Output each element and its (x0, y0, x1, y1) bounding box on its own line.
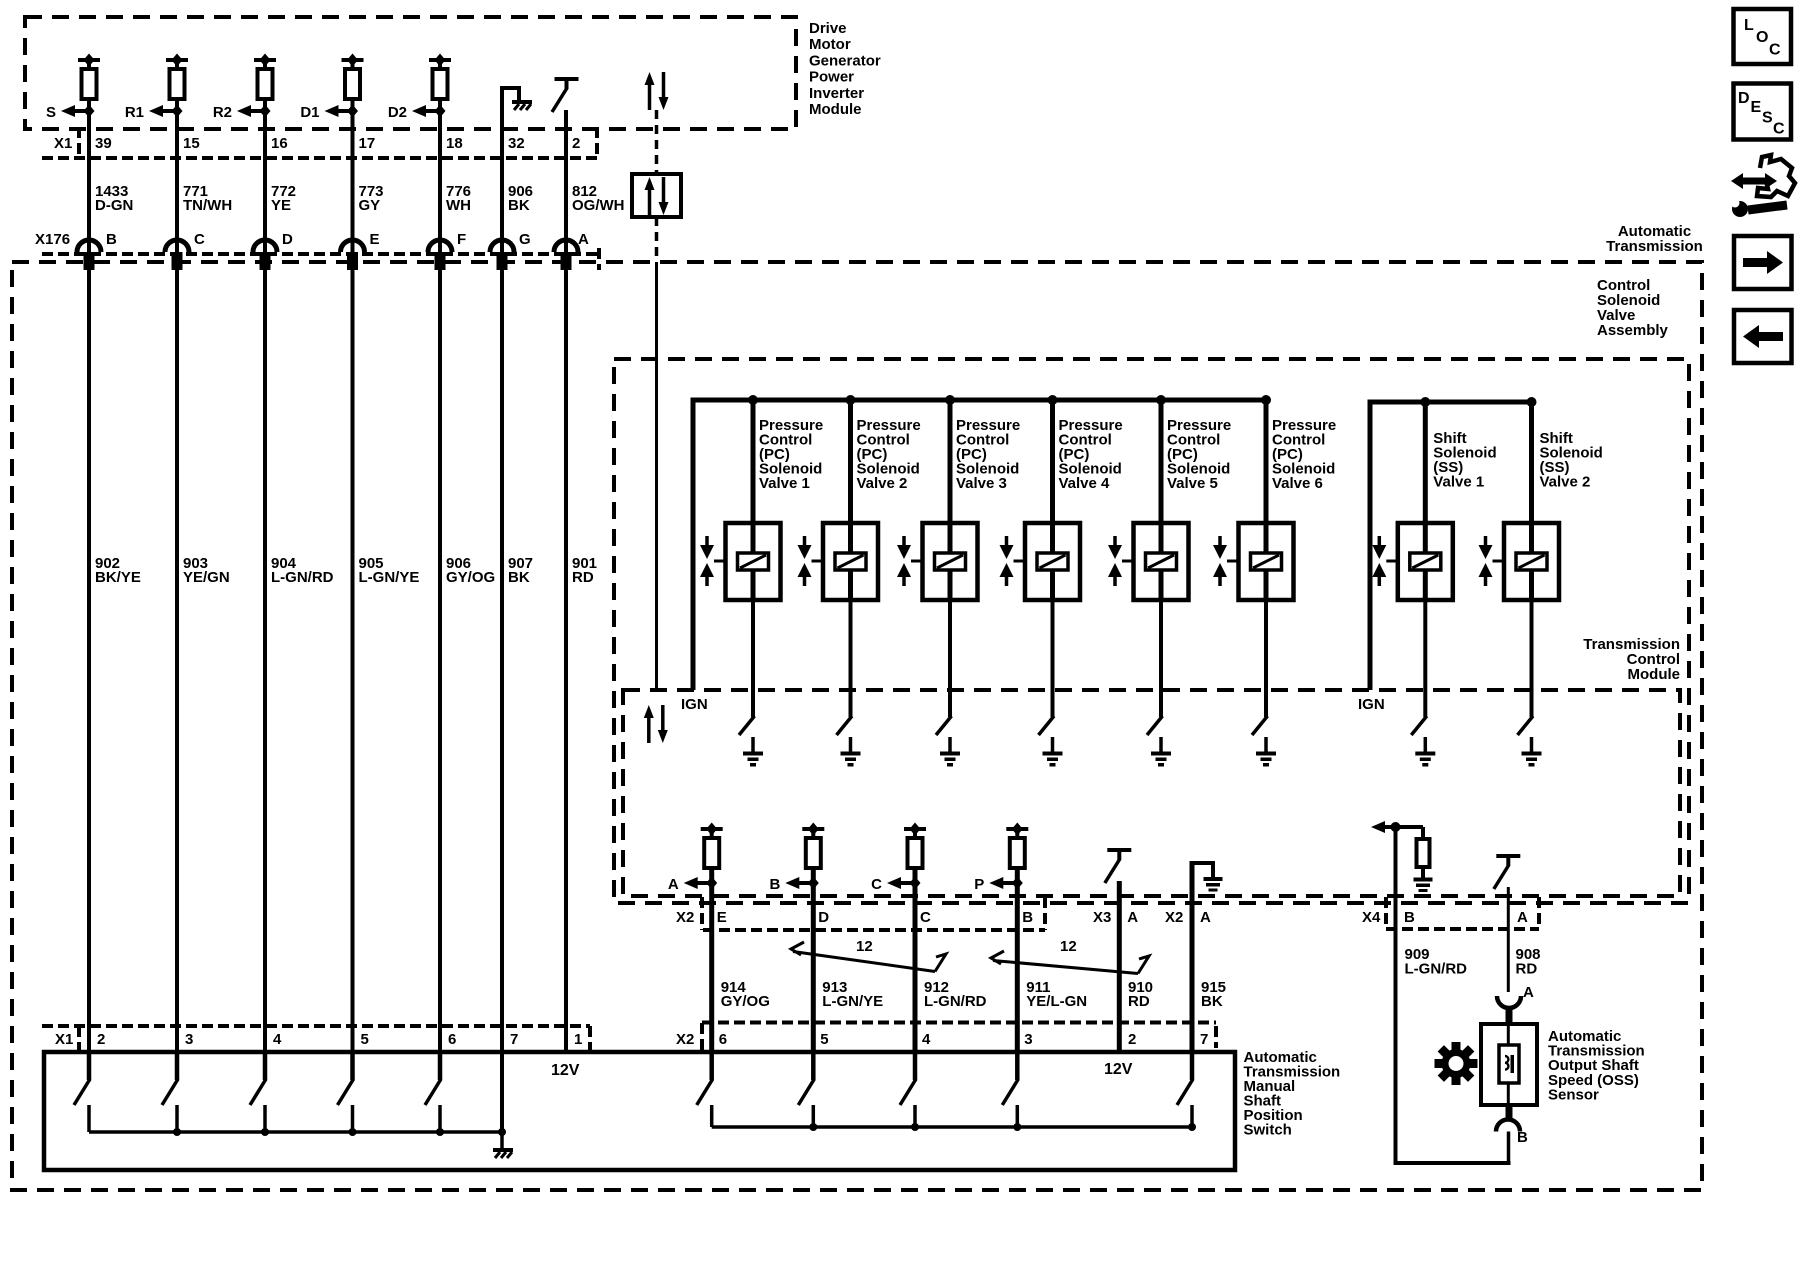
svg-text:Drive: Drive (809, 20, 847, 37)
svg-text:L: L (1744, 17, 1754, 34)
serial data dashed wire upper (655, 110, 659, 174)
svg-text:S: S (1762, 110, 1773, 127)
wire below PC valve 1 (751, 600, 755, 717)
wire PC solenoid valve 6 (1264, 400, 1269, 523)
svg-text:X3: X3 (1093, 909, 1111, 926)
wire 908 RD (1507, 887, 1510, 992)
svg-text:GY: GY (359, 197, 381, 214)
fuse element D1 in inverter module (342, 58, 364, 62)
svg-text:A: A (578, 231, 589, 248)
switch contact X3-A in TCM (1107, 848, 1131, 852)
connector X176 pin G (490, 240, 514, 252)
svg-text:IGN: IGN (1358, 696, 1385, 713)
svg-text:5: 5 (361, 1031, 369, 1048)
svg-text:L-GN/YE: L-GN/YE (822, 993, 883, 1010)
wire 914 GY/OG (709, 870, 714, 1054)
fuse element R1 in inverter module (166, 58, 188, 62)
pressure control solenoid valve 4 (1025, 523, 1080, 600)
pressure control solenoid valve 5 (1134, 523, 1189, 600)
wire 1433 D-GN upper segment (87, 99, 91, 253)
svg-text:C: C (1773, 121, 1785, 138)
junction node on IGN bus for PC valve 3 (945, 395, 955, 405)
TCM driver switch for PC valve 4 (1039, 716, 1055, 735)
TCM driver switch for SS valve 1 (1411, 716, 1427, 735)
wire below PC valve 5 (1159, 600, 1163, 717)
wire below SS valve 1 (1423, 600, 1427, 717)
svg-text:B: B (1517, 1129, 1528, 1146)
svg-text:Valve 4: Valve 4 (1059, 475, 1111, 492)
svg-text:P: P (974, 876, 984, 893)
svg-text:32: 32 (508, 135, 525, 152)
svg-text:B: B (1404, 909, 1415, 926)
svg-text:6: 6 (719, 1031, 727, 1048)
serial data wire inside transmission (655, 262, 658, 690)
wire 913 L-GN/YE (811, 870, 816, 1054)
svg-text:4: 4 (273, 1031, 282, 1048)
module box: Control Solenoid Valve Assembly (614, 359, 1689, 903)
svg-text:A: A (1200, 909, 1211, 926)
icon next arrow box (1734, 236, 1792, 289)
svg-text:Valve 2: Valve 2 (857, 475, 908, 492)
svg-text:RD: RD (1516, 961, 1538, 978)
svg-text:A: A (1523, 984, 1534, 1001)
icon full size view with wrench (1728, 155, 1795, 217)
svg-text:TN/WH: TN/WH (183, 197, 232, 214)
wire 912 L-GN/RD (913, 870, 918, 1054)
position switch contact at x=89 (87, 1052, 92, 1080)
svg-text:X1: X1 (55, 1031, 73, 1048)
wire 907 BK to position switch (500, 270, 504, 1054)
gear icon of OSS sensor (1435, 1042, 1478, 1085)
wire 904 L-GN/RD to position switch (263, 270, 267, 1054)
fuse element D2 in inverter module (429, 58, 451, 62)
module box: Automatic Transmission (12, 262, 1702, 1190)
svg-text:C: C (194, 231, 205, 248)
junction node on IGN bus for PC valve 5 (1156, 395, 1166, 405)
svg-text:Module: Module (1628, 666, 1681, 683)
svg-text:Valve 1: Valve 1 (759, 475, 810, 492)
pressure control solenoid valve 1 (726, 523, 781, 600)
svg-text:D1: D1 (300, 104, 319, 121)
svg-text:F: F (457, 231, 466, 248)
svg-text:16: 16 (271, 135, 288, 152)
svg-text:GY/OG: GY/OG (446, 569, 495, 586)
ground return 915 BK in TCM (1192, 863, 1213, 877)
position switch contact pin 7 (1190, 1052, 1195, 1080)
TCM driver switch for PC valve 3 (936, 716, 952, 735)
junction node on switch bus right (1188, 1123, 1196, 1131)
switch contact X4-A in TCM (1496, 854, 1520, 858)
wire bottom run to sensor (1394, 1161, 1511, 1165)
svg-text:12: 12 (1060, 938, 1077, 955)
junction node on switch bus right (809, 1123, 817, 1131)
arrow terminal R1 (162, 109, 177, 113)
connector X176 pin B (77, 240, 101, 252)
connector pin A of OSS sensor (1497, 996, 1521, 1008)
svg-text:BK/YE: BK/YE (95, 569, 141, 586)
wire 909 L-GN/RD (1394, 827, 1398, 1163)
svg-text:GY/OG: GY/OG (721, 993, 770, 1010)
wire IGN feed bus for shift solenoids (1370, 402, 1532, 690)
connector X176 pin D (253, 240, 277, 252)
svg-text:Valve 1: Valve 1 (1433, 474, 1484, 491)
earth ground on 909 branch (1414, 878, 1433, 882)
junction node on IGN bus for SS valve 2 (1527, 397, 1537, 407)
connector X176 pin C (165, 240, 189, 252)
switch common bus left (89, 1130, 502, 1134)
serial data connector box with up-down arrows (632, 174, 681, 217)
svg-text:4: 4 (922, 1031, 931, 1048)
arrow terminal A (697, 881, 712, 885)
svg-text:YE: YE (271, 197, 291, 214)
svg-text:C: C (1769, 42, 1781, 59)
shift solenoid valve 1 (1398, 523, 1453, 600)
pressure control solenoid valve 2 (823, 523, 878, 600)
junction node on switch bus right (1013, 1123, 1021, 1131)
svg-text:X2: X2 (1165, 909, 1183, 926)
wire 906 GY/OG to position switch (438, 270, 442, 1054)
svg-text:Switch: Switch (1244, 1122, 1292, 1139)
wire PC solenoid valve 2 (848, 400, 853, 523)
junction node on switch bus (498, 1128, 506, 1136)
wire IGN feed bus for PC solenoids (693, 400, 1266, 690)
svg-text:RD: RD (1128, 993, 1150, 1010)
module box: Transmission Control Module (623, 690, 1680, 896)
wire 773 GY upper segment (351, 99, 355, 253)
svg-text:5: 5 (820, 1031, 828, 1048)
svg-text:3: 3 (1024, 1031, 1032, 1048)
position switch contact pin 3 (1015, 1052, 1020, 1080)
svg-text:RD: RD (572, 569, 594, 586)
serial data up-down arrows in inverter module (648, 83, 652, 110)
svg-text:Transmission: Transmission (1606, 238, 1703, 255)
serial data up-down arrows in TCM (647, 716, 651, 743)
wire 910 RD (1117, 881, 1122, 1054)
svg-text:6: 6 (448, 1031, 456, 1048)
svg-text:L-GN/RD: L-GN/RD (1405, 961, 1468, 978)
junction node on IGN bus for PC valve 2 (846, 395, 856, 405)
svg-text:A: A (1127, 909, 1138, 926)
connector X4 row (1384, 897, 1388, 929)
wire shift solenoid valve 1 (1423, 402, 1428, 523)
junction node on switch bus (261, 1128, 269, 1136)
connector X176 pin F (428, 240, 452, 252)
position switch contact pin 5 (811, 1052, 816, 1080)
svg-text:YE/L-GN: YE/L-GN (1026, 993, 1087, 1010)
fuse element P in TCM (1006, 827, 1028, 831)
svg-text:39: 39 (95, 135, 112, 152)
svg-text:Power: Power (809, 69, 854, 86)
svg-text:1: 1 (574, 1031, 582, 1048)
arrow terminal P (1002, 881, 1017, 885)
harness crossover mark 12 right (991, 951, 1004, 964)
wire 771 TN/WH upper segment (175, 99, 179, 253)
svg-text:R2: R2 (213, 104, 232, 121)
svg-text:X1: X1 (54, 135, 72, 152)
svg-text:7: 7 (1200, 1031, 1208, 1048)
wire 901 RD to position switch (564, 270, 568, 1054)
fuse element S in inverter module (78, 58, 100, 62)
svg-text:Motor: Motor (809, 36, 851, 53)
svg-text:B: B (106, 231, 117, 248)
wire PC solenoid valve 5 (1159, 400, 1164, 523)
junction node on IGN bus for PC valve 4 (1048, 395, 1058, 405)
svg-text:B: B (1022, 909, 1033, 926)
wire 776 WH upper segment (438, 99, 442, 253)
svg-text:OG/WH: OG/WH (572, 197, 625, 214)
svg-text:Valve 6: Valve 6 (1272, 475, 1323, 492)
svg-text:2: 2 (572, 135, 580, 152)
svg-text:L-GN/RD: L-GN/RD (924, 993, 987, 1010)
svg-text:15: 15 (183, 135, 200, 152)
connector X176 pin E (341, 240, 365, 252)
wire below PC valve 2 (849, 600, 853, 717)
wire 902 BK/YE to position switch (87, 270, 91, 1054)
svg-text:Sensor: Sensor (1548, 1086, 1599, 1103)
svg-text:B: B (769, 876, 780, 893)
svg-text:E: E (717, 909, 727, 926)
svg-text:E: E (370, 231, 380, 248)
junction node on switch bus (436, 1128, 444, 1136)
icon LOC box (1734, 9, 1792, 64)
switch contact for wire 812 OG/WH in inverter module (555, 77, 579, 81)
svg-text:E: E (1751, 99, 1762, 116)
position switch contact pin 4 (913, 1052, 918, 1080)
connector X176 pin A (554, 240, 578, 252)
component box: OSS sensor (1481, 1024, 1537, 1105)
wire PC solenoid valve 3 (948, 400, 953, 523)
svg-text:A: A (668, 876, 679, 893)
position switch contact pin 6 (709, 1052, 714, 1080)
svg-text:18: 18 (446, 135, 463, 152)
svg-text:X4: X4 (1362, 909, 1381, 926)
wire 812 OG/WH upper segment (564, 110, 568, 253)
wire 905 L-GN/YE to position switch (351, 270, 355, 1054)
svg-text:2: 2 (1128, 1031, 1136, 1048)
wire PC solenoid valve 1 (751, 400, 756, 523)
svg-text:BK: BK (1201, 993, 1223, 1010)
position switch contact at x=177 (175, 1052, 180, 1080)
wire 907 BK inside position switch to ground (500, 1052, 504, 1132)
svg-text:2: 2 (97, 1031, 105, 1048)
svg-text:12: 12 (856, 938, 873, 955)
TCM driver switch for PC valve 1 (739, 716, 755, 735)
shift solenoid valve 2 (1504, 523, 1559, 600)
wire below SS valve 2 (1530, 600, 1534, 717)
serial data dashed wire middle (655, 217, 659, 262)
TCM driver switch for PC valve 6 (1252, 716, 1268, 735)
wire below PC valve 4 (1051, 600, 1055, 717)
svg-text:O: O (1756, 29, 1768, 46)
svg-text:IGN: IGN (681, 696, 708, 713)
harness crossover mark 12 left (791, 942, 804, 955)
junction node on IGN bus for SS valve 1 (1420, 397, 1430, 407)
svg-text:Generator: Generator (809, 52, 881, 69)
arrow terminal D1 (338, 109, 353, 113)
TCM driver switch for SS valve 2 (1518, 716, 1534, 735)
svg-text:X2: X2 (676, 1031, 694, 1048)
svg-text:A: A (1517, 909, 1528, 926)
svg-text:WH: WH (446, 197, 471, 214)
fuse element C in TCM (904, 827, 926, 831)
arrow terminal R2 (250, 109, 265, 113)
wire shift solenoid valve 2 (1529, 402, 1534, 523)
svg-text:Valve 5: Valve 5 (1167, 475, 1218, 492)
chassis ground of position switch (500, 1132, 504, 1148)
position switch contact at x=265 (263, 1052, 268, 1080)
position switch contact at x=352.5 (350, 1052, 355, 1080)
svg-text:3: 3 (185, 1031, 193, 1048)
svg-text:L-GN/RD: L-GN/RD (271, 569, 334, 586)
svg-text:12V: 12V (1104, 1061, 1133, 1078)
TCM driver switch for PC valve 2 (837, 716, 853, 735)
pressure control solenoid valve 6 (1239, 523, 1294, 600)
switch common bus right (712, 1125, 1192, 1129)
fuse element B in TCM (802, 827, 824, 831)
junction node on IGN bus for PC valve 1 (748, 395, 758, 405)
TCM driver switch for PC valve 5 (1147, 716, 1163, 735)
arrow terminal for 909 feed in TCM (1384, 825, 1423, 829)
svg-text:D-GN: D-GN (95, 197, 133, 214)
svg-text:12V: 12V (551, 1062, 580, 1079)
component box: Automatic Transmission Manual Shaft Position Switch (44, 1052, 1235, 1170)
svg-text:G: G (519, 231, 531, 248)
svg-text:D: D (282, 231, 293, 248)
wire 772 YE upper segment (263, 99, 267, 253)
icon back arrow box (1734, 310, 1792, 363)
junction node on switch bus right (911, 1123, 919, 1131)
svg-text:BK: BK (508, 569, 530, 586)
svg-text:D: D (1738, 90, 1750, 107)
svg-text:Module: Module (809, 101, 862, 118)
svg-text:BK: BK (508, 197, 530, 214)
svg-text:S: S (46, 104, 56, 121)
svg-text:X176: X176 (35, 231, 70, 248)
icon DESC box (1734, 84, 1792, 140)
wire 903 YE/GN to position switch (175, 270, 179, 1054)
OSS sensor element (1507, 1024, 1510, 1105)
svg-text:D2: D2 (388, 104, 407, 121)
svg-text:X2: X2 (676, 909, 694, 926)
pressure control solenoid valve 3 (923, 523, 978, 600)
junction node on switch bus (173, 1128, 181, 1136)
junction node on switch bus (349, 1128, 357, 1136)
wire 911 YE/L-GN (1015, 870, 1020, 1054)
arrow terminal D2 (425, 109, 440, 113)
fuse element on 909 branch (1421, 827, 1425, 839)
module box: Drive Motor Generator Power Inverter Module (25, 17, 796, 129)
wire from sensor pin B (1507, 1132, 1511, 1166)
svg-text:7: 7 (510, 1031, 518, 1048)
arrow terminal C (900, 881, 915, 885)
wire below PC valve 6 (1264, 600, 1268, 717)
svg-text:YE/GN: YE/GN (183, 569, 230, 586)
wire 915 BK (1190, 861, 1195, 1054)
chassis ground for wire 906 BK in inverter module (500, 86, 504, 253)
arrow terminal B (798, 881, 813, 885)
svg-text:C: C (871, 876, 882, 893)
svg-text:R1: R1 (125, 104, 144, 121)
svg-text:Inverter: Inverter (809, 85, 864, 102)
svg-text:Assembly: Assembly (1597, 322, 1669, 339)
wire below PC valve 3 (948, 600, 952, 717)
junction node on IGN bus for PC valve 6 (1261, 395, 1271, 405)
svg-text:L-GN/YE: L-GN/YE (359, 569, 420, 586)
fuse element R2 in inverter module (254, 58, 276, 62)
svg-text:Valve 3: Valve 3 (956, 475, 1007, 492)
svg-text:Valve 2: Valve 2 (1540, 474, 1591, 491)
position switch contact at x=440 (438, 1052, 443, 1080)
wire PC solenoid valve 4 (1050, 400, 1055, 523)
svg-text:D: D (818, 909, 829, 926)
connector pin B of OSS sensor (1506, 1105, 1513, 1121)
arrow terminal S (74, 109, 89, 113)
svg-text:C: C (920, 909, 931, 926)
fuse element A in TCM (701, 827, 723, 831)
svg-text:17: 17 (359, 135, 376, 152)
